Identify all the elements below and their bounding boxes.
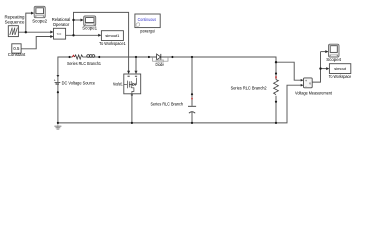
svg-text:Diode: Diode	[156, 62, 165, 67]
svg-text:Mosfet1: Mosfet1	[113, 82, 123, 87]
svg-text:Scope4: Scope4	[326, 57, 341, 62]
svg-text:simout1: simout1	[105, 33, 120, 38]
svg-text:powergui: powergui	[140, 28, 155, 33]
svg-text:Constant: Constant	[8, 52, 26, 57]
svg-text:To Workspace: To Workspace	[329, 74, 352, 79]
svg-text:Series RLC Branch: Series RLC Branch	[151, 102, 184, 107]
svg-text:+: +	[305, 79, 307, 83]
svg-text:Continuous: Continuous	[138, 17, 157, 22]
svg-text:Sequence: Sequence	[5, 20, 25, 25]
svg-text:Scope2: Scope2	[32, 19, 47, 24]
svg-text:simout: simout	[334, 66, 347, 71]
svg-text:0.5: 0.5	[13, 46, 20, 51]
svg-text:DC Voltage Source: DC Voltage Source	[62, 81, 96, 86]
svg-text:To Workspace1: To Workspace1	[99, 41, 126, 46]
svg-text:Series RLC Branch1: Series RLC Branch1	[67, 61, 101, 66]
svg-text:Voltage Measurement: Voltage Measurement	[295, 90, 333, 95]
svg-text:Operator: Operator	[53, 22, 70, 27]
svg-text:+: +	[54, 79, 56, 83]
svg-text:Scope1: Scope1	[82, 26, 97, 31]
svg-text:Series RLC Branch2: Series RLC Branch2	[231, 85, 267, 90]
svg-text:<=: <=	[57, 31, 62, 36]
svg-text:v: v	[309, 82, 311, 86]
